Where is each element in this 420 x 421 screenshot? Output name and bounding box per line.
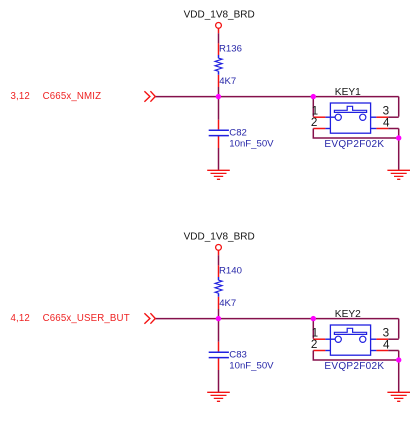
svg-text:VDD_1V8_BRD: VDD_1V8_BRD [184, 231, 255, 242]
svg-text:C83: C83 [229, 350, 247, 361]
svg-text:4K7: 4K7 [219, 298, 236, 309]
svg-text:4: 4 [383, 338, 390, 351]
svg-text:C665x_USER_BUT: C665x_USER_BUT [43, 313, 130, 324]
svg-text:2: 2 [311, 116, 318, 129]
svg-text:10nF_50V: 10nF_50V [229, 361, 274, 372]
svg-text:C82: C82 [229, 128, 247, 139]
svg-text:4,12: 4,12 [11, 313, 30, 324]
svg-text:KEY1: KEY1 [335, 87, 361, 98]
svg-text:R136: R136 [219, 43, 242, 54]
svg-text:10nF_50V: 10nF_50V [229, 139, 274, 150]
svg-text:4: 4 [383, 116, 390, 129]
svg-text:4K7: 4K7 [219, 76, 236, 87]
svg-text:C665x_NMIZ: C665x_NMIZ [43, 91, 102, 102]
svg-text:EVQP2F02K: EVQP2F02K [324, 139, 384, 150]
svg-text:VDD_1V8_BRD: VDD_1V8_BRD [184, 9, 255, 20]
svg-text:KEY2: KEY2 [335, 309, 361, 320]
svg-text:EVQP2F02K: EVQP2F02K [324, 361, 384, 372]
svg-text:R140: R140 [219, 265, 242, 276]
svg-text:2: 2 [311, 338, 318, 351]
svg-text:3,12: 3,12 [11, 91, 30, 102]
